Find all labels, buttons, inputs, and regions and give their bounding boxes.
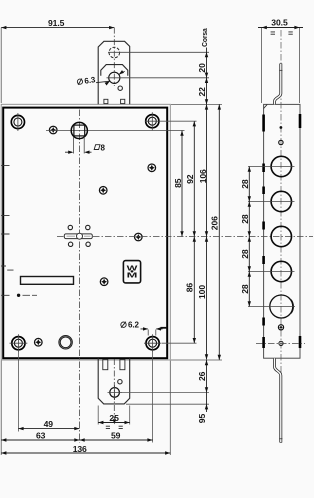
corner screw bottom-left [10,334,28,352]
plate left extension down [0,361,2,456]
d6.2 dimension [141,328,163,330]
label d6.3 leader lower arrow [96,81,110,83]
logo plate [123,261,140,283]
right edge weld bars [299,114,302,348]
dim 206 [218,104,220,360]
svg-text:20: 20 [197,63,207,73]
main plate inner edge (lock case) [3,108,167,359]
bottom tab fixing hole [110,388,120,398]
dim 85 [181,131,183,237]
dim 91.5 [1,27,114,29]
square follower 8mm square hole [74,125,85,136]
side body [264,104,300,358]
side small pin [280,126,283,129]
phillips screw E [100,278,108,286]
equal marks under dim 30.5 [271,32,293,34]
main vertical centre line (follower/cylinder axis) [79,110,81,443]
dim 86 [193,237,195,344]
phillips screw D [135,233,143,241]
bolt hole centre line extension [107,77,210,79]
right edge tick mark [161,327,168,329]
dim 91.5 extension left [0,28,2,103]
phillips screw A [49,126,57,134]
svg-text:85: 85 [173,178,183,188]
square dim 8 arrows [65,151,92,153]
dim 20 (stroke) [206,48,208,78]
square dim extension lines [74,137,85,154]
cylinder fixing hole bottom-right [86,242,90,246]
extension line from phantom circle to Corsa dim [108,51,209,53]
dim 63 [1,439,79,441]
dim 9.5 [206,392,208,412]
dim 92 extension (top right screw) [160,120,197,122]
cylinder fixing hole bottom-left [68,242,72,246]
key cylinder centre circle [77,233,83,239]
svg-text:6.3: 6.3 [84,75,97,86]
bottom right screw extension down [152,351,154,443]
label square-8 [94,144,105,153]
cylinder fixing hole top-right [86,225,90,229]
bottom tab centre line [113,359,115,419]
svg-text:26: 26 [197,371,207,381]
cylinder fixing hole top-left [68,225,72,229]
svg-text:100: 100 [197,285,207,299]
lower rod [275,358,283,442]
dim 136 [1,452,170,454]
phillips screw F [35,338,43,346]
bolt head hexagon (upper position) [101,65,128,76]
dim 26 [206,360,208,392]
cylinder horizontal centre line (long dash-dot) [57,236,313,238]
dim 22 [206,78,208,105]
svg-text:86: 86 [184,283,194,293]
circle centre extensions to 28 chain [248,167,295,307]
bottom tab slot notch right [120,359,125,369]
follower horizontal centre line [46,130,185,132]
side small ring [279,140,283,144]
bottom tab hole crosshair [108,385,123,400]
svg-text:92: 92 [185,174,195,184]
cylinder circle 5 [270,295,293,318]
left edge tick marks [1,166,13,296]
svg-text:30.5: 30.5 [271,18,288,28]
svg-text:28: 28 [240,214,250,224]
svg-text:63: 63 [36,430,46,440]
top tab outline [98,41,130,104]
deadbolt circle 2 [271,191,291,211]
svg-text:206: 206 [210,216,220,230]
dim 100 [206,237,208,360]
small hole with centre dash [17,294,20,297]
left edge weld bars [262,115,265,349]
deadbolt circle 4 [271,261,291,281]
phillips screw C [99,187,107,195]
bottom left screw extension down [17,351,19,432]
bottom tab hole extension right [120,391,209,393]
side small hole with centre line [279,341,283,345]
equal marks under dim 25 [106,426,123,428]
label d6.3 text [77,75,97,86]
bolt hole circle d6.3 [109,72,120,83]
dim 92 [193,121,195,236]
key cylinder slot [64,234,92,239]
svg-text:28: 28 [240,284,250,294]
small hole in top tab [118,86,122,90]
svg-text:95: 95 [197,414,207,424]
dim 86 extension (bottom right screw) [162,342,197,344]
deadbolt circle 1 [271,156,291,176]
side body corner chamfer [264,104,268,108]
corner screw top-left [11,113,24,131]
dim 25 [98,422,130,424]
plate bottom extension right [171,359,222,361]
svg-text:22: 22 [197,87,207,97]
label d6.2 [121,321,140,330]
key cylinder slot shading [67,235,91,237]
handle slot rectangle [21,277,74,285]
top tab slot notch left [104,99,108,103]
phillips screw B [148,164,156,172]
svg-text:49: 49 [44,419,54,429]
svg-text:28: 28 [240,249,250,259]
dim 30.5 [258,27,303,29]
svg-text:91.5: 91.5 [48,18,65,28]
label d6.3 leader upper arrow [119,71,125,74]
side phillips screw [278,325,283,330]
dim 30.5 extensions [262,28,300,104]
square follower circle [71,122,87,138]
corner screw top-right [145,112,160,130]
dim chain 28 line [248,167,250,307]
svg-text:25: 25 [109,413,119,423]
dim 25 extension lines [98,406,130,425]
bottom tab bottom extension right [126,403,209,405]
dim 49 [18,428,79,430]
cylinder ring hole [59,336,72,349]
dim 59 [80,439,153,441]
svg-text:28: 28 [240,179,250,189]
corner screw bottom-right [144,334,162,352]
svg-text:Corsa: Corsa [200,28,209,47]
phantom circle (bolt retracted position) [109,47,120,58]
svg-text:6.2: 6.2 [128,321,139,330]
svg-text:136: 136 [73,444,87,454]
svg-text:106: 106 [198,169,208,183]
bottom tab slot notch left [103,359,108,369]
plate top extension right [171,103,222,105]
main plate outer edge [1,104,170,360]
deadbolt circle 3 [271,226,291,246]
top tab centre line [113,28,115,86]
upper rod [275,64,283,105]
top tab slot notch right [121,99,125,103]
svg-text:59: 59 [111,431,121,441]
plate right extension down [169,361,171,456]
svg-text:8: 8 [101,144,106,153]
dim 106 [206,104,208,236]
side centre line [280,30,282,443]
small hole in bottom tab [118,380,122,384]
bottom tab outline [98,358,130,404]
